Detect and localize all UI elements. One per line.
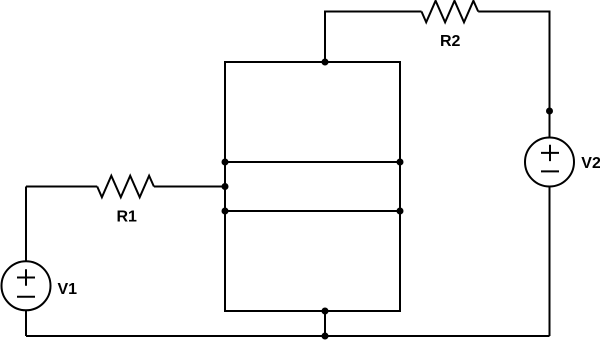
svg-text:R2: R2: [440, 33, 461, 50]
svg-text:V2: V2: [581, 155, 600, 172]
svg-text:V1: V1: [58, 281, 78, 298]
svg-text:R1: R1: [117, 209, 138, 226]
